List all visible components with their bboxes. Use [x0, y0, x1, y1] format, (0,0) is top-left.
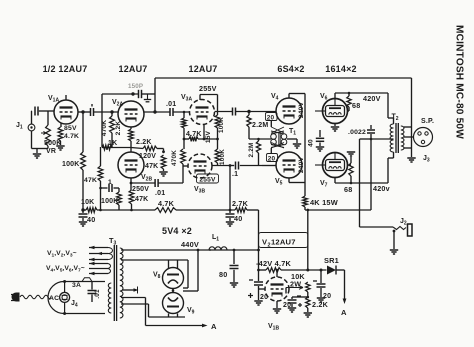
choke L1 — [209, 247, 227, 250]
transformer T2 core — [396, 123, 398, 153]
label L1 — [212, 234, 219, 243]
svg-text:255V: 255V — [199, 84, 217, 93]
capacitor .01 (V2A-V3A) — [170, 108, 173, 116]
svg-text:40: 40 — [234, 214, 242, 223]
svg-text:68: 68 — [352, 101, 360, 110]
svg-text:85V: 85V — [64, 125, 77, 132]
label 47K divider — [84, 177, 97, 184]
node row mid2 — [130, 209, 133, 212]
label 420V top — [363, 94, 381, 103]
ground (40 left) — [79, 222, 87, 226]
ground (20 mid) — [288, 308, 296, 312]
node L1 in — [197, 249, 260, 252]
node 10K bottom — [307, 296, 310, 299]
svg-text:420V: 420V — [363, 94, 381, 103]
svg-text:6S4×2: 6S4×2 — [277, 64, 304, 74]
resistor 2.7K — [235, 208, 247, 213]
resistor 47K to ground (V2B) — [161, 155, 166, 171]
capacitor input coupling — [32, 107, 39, 116]
svg-text:S.P.: S.P. — [421, 118, 434, 125]
wire T1 right to ground — [287, 139, 297, 143]
svg-text:.01: .01 — [94, 289, 101, 299]
ground (20 right) — [317, 298, 325, 302]
AC plug — [11, 293, 20, 302]
label 2.2M lower — [248, 142, 255, 157]
resistor 4.7K (V3A cathode) — [189, 137, 198, 142]
svg-text:240V: 240V — [298, 157, 305, 174]
label V2B — [141, 174, 152, 183]
label 1K — [108, 140, 117, 147]
cathode resistor 2.2K of V2A — [129, 127, 134, 148]
label .0022 — [348, 129, 366, 136]
svg-text:2.2K: 2.2K — [115, 121, 122, 136]
label 2.2M top — [252, 122, 268, 129]
wire grid node down to volume pot — [47, 111, 49, 125]
capacitor 20 boxed (V4 grid) — [266, 113, 278, 122]
resistor 100K upper (V3A plate) — [200, 95, 220, 140]
tube V2A — [118, 101, 144, 127]
label 47K V2B — [145, 163, 158, 170]
label V1A — [48, 95, 59, 104]
label S.P. — [421, 118, 434, 125]
wire SR1 output to A — [343, 270, 347, 304]
label J4 — [71, 300, 78, 309]
svg-text:4K 15W: 4K 15W — [310, 198, 338, 207]
label 20 right — [323, 293, 331, 300]
label: tube 1614 x2 — [325, 64, 356, 74]
capacitor .0022 — [367, 125, 375, 210]
svg-text:2.7K: 2.7K — [232, 199, 249, 208]
wiper arrow 10K — [286, 286, 303, 294]
node A2 junction — [110, 110, 113, 113]
label .1 — [232, 171, 238, 178]
wire V3A grid column — [183, 111, 186, 118]
ground (40 mid) — [226, 222, 234, 226]
tube V1A — [54, 95, 78, 124]
wire T1 left — [249, 138, 271, 141]
ground (output) — [407, 158, 415, 162]
label VR — [46, 148, 56, 155]
label A (bottom left) — [211, 322, 217, 331]
node cathode row left — [183, 138, 186, 141]
svg-text:100K: 100K — [218, 117, 225, 133]
svg-text:SR1: SR1 — [324, 256, 339, 265]
label 20 mid — [283, 302, 291, 309]
wire V8 right bracket — [183, 260, 188, 288]
capacitor 40 (mid) — [226, 210, 235, 221]
speaker jack S.P. — [414, 128, 433, 147]
svg-text:4.7K: 4.7K — [64, 133, 79, 140]
tube V3A — [190, 100, 215, 125]
wire bias column right — [306, 209, 309, 270]
label 15V vertical — [205, 130, 212, 143]
ground (T1) — [293, 144, 301, 148]
svg-text:2W: 2W — [290, 280, 301, 289]
resistor (V3A grid leak) — [182, 118, 187, 139]
svg-text:1: 1 — [108, 179, 112, 186]
tube V6 — [315, 99, 348, 124]
wire J1 to input cap — [31, 111, 33, 124]
svg-text:A: A — [211, 322, 217, 331]
rectifier heater tap arrow — [122, 287, 139, 294]
wire output ground column — [411, 78, 413, 157]
capacitor coupling V1A-V2A — [91, 104, 94, 116]
wire feedback top line — [155, 77, 412, 79]
wire branch down to grid node — [101, 94, 103, 147]
wire V3A out to V4 grid — [215, 111, 277, 113]
capacitor 20 (bias right) — [317, 270, 326, 297]
fuse 3A — [82, 278, 92, 282]
resistor 10K — [86, 208, 97, 213]
wire V7 plate bottom — [335, 178, 388, 185]
svg-text:A: A — [341, 308, 347, 317]
ground (V6 cathode) — [331, 124, 339, 132]
wire J2 column — [360, 138, 373, 227]
svg-text:20: 20 — [267, 114, 275, 121]
capacitor 1 (divider) — [101, 184, 120, 192]
label V7 — [320, 180, 328, 189]
svg-text:20: 20 — [323, 293, 331, 300]
resistor 47K (V2B lower) — [129, 183, 134, 210]
node row left — [81, 208, 84, 211]
capacitor .01 (V2B out) — [155, 179, 158, 187]
node plate row — [229, 164, 232, 167]
AC receptacle J4 — [60, 280, 70, 315]
svg-text:100K: 100K — [62, 161, 80, 168]
svg-text:80: 80 — [219, 270, 227, 279]
wire V1B plate stub — [276, 270, 278, 277]
svg-text:440V: 440V — [181, 240, 199, 249]
wire V1B cathode — [276, 301, 278, 308]
capacitor 40 (left) — [79, 210, 88, 221]
svg-text:68: 68 — [344, 185, 352, 194]
trimmer ground mark — [144, 94, 151, 102]
resistor 4.7K bias — [266, 268, 281, 273]
label V2 12AU7 — [262, 238, 296, 249]
resistor 68 (V6 screen) — [347, 92, 351, 111]
label -42V 4.7K — [256, 259, 292, 268]
resistor 100K lower — [215, 139, 220, 166]
label 4.7K row — [158, 199, 175, 208]
transformer T2 secondary — [401, 126, 404, 150]
label: rectifier 5V4 x2 — [162, 226, 192, 236]
label SR1 — [324, 256, 339, 265]
node V8-V9 junction — [172, 289, 175, 293]
tube V5 — [276, 152, 302, 178]
label .01 rotated — [94, 289, 101, 299]
label J2 — [400, 218, 407, 227]
wire T2 primary bottom — [388, 152, 394, 183]
svg-text:420v: 420v — [373, 184, 390, 193]
label 40 left — [87, 215, 95, 224]
svg-text:15V: 15V — [205, 130, 212, 143]
label 1 — [108, 179, 112, 186]
label 150P faint — [128, 83, 143, 90]
node row mid1 — [99, 209, 102, 212]
label 68 top — [352, 101, 360, 110]
node bias row j1 — [257, 269, 260, 272]
wire cathode row — [184, 138, 218, 140]
resistor 470K (V2A grid) — [110, 112, 115, 147]
label V6 — [320, 93, 328, 102]
capacitor 20 (mid) — [288, 300, 297, 307]
label 255V — [199, 84, 217, 93]
label T1 — [289, 128, 296, 137]
node feedback branch — [131, 92, 134, 95]
wire J1 sleeve down — [32, 131, 38, 149]
label: side title MCINTOSH MC-80 50W — [454, 25, 465, 139]
label 47K lower — [135, 196, 148, 203]
wire T2 center tap — [371, 138, 394, 140]
node bias row j2 — [306, 269, 309, 272]
capacitor feedback trimmer — [139, 90, 142, 98]
resistor 100K (divider lower) — [117, 188, 122, 210]
svg-text:-42V 4.7K: -42V 4.7K — [256, 259, 292, 268]
transformer T1 — [271, 131, 287, 148]
transformer T3 HV secondary — [120, 248, 123, 318]
wire 420V feed row — [305, 209, 371, 211]
label T3 — [109, 236, 117, 247]
wire pot bottom to ground — [37, 146, 48, 153]
node row mid3 — [229, 209, 232, 212]
svg-text:4.7K: 4.7K — [158, 199, 175, 208]
polarity minus right — [313, 280, 317, 282]
cathode resistor 4.7K of V1A — [58, 123, 63, 145]
label 4.7K (V1A cathode) — [64, 133, 79, 140]
wire HV top to 440V — [121, 249, 259, 251]
svg-text:20: 20 — [268, 155, 276, 162]
label T2 — [392, 114, 399, 123]
wire V4 plate rail — [289, 94, 305, 197]
svg-text:12AU7: 12AU7 — [118, 64, 147, 74]
tube V7 — [315, 153, 348, 178]
AC pill outline — [48, 282, 105, 314]
svg-text:.01: .01 — [155, 190, 165, 197]
ground (input) — [33, 154, 41, 158]
label 40 mid — [234, 214, 242, 223]
svg-text:5V4 ×2: 5V4 ×2 — [162, 226, 192, 236]
svg-text:255V: 255V — [199, 177, 216, 184]
label 85V — [64, 125, 77, 132]
resistor 4.7K row — [155, 208, 176, 213]
wire J2 row — [360, 226, 394, 228]
node 80 cap — [233, 249, 236, 252]
label 100K lower — [101, 198, 119, 205]
label V2A — [112, 99, 123, 108]
ground (bias left cap) — [254, 301, 262, 305]
capacitor .1 — [236, 162, 239, 170]
label 255V boxed — [197, 174, 219, 184]
label 80 — [219, 270, 227, 279]
ground (V1B) — [273, 309, 281, 313]
node V2B out — [130, 182, 133, 185]
svg-text:.01: .01 — [166, 101, 176, 108]
wire V2A plate to V3A grid — [144, 111, 190, 113]
svg-text:3A: 3A — [72, 282, 81, 289]
transformer T3 primary — [108, 283, 111, 313]
svg-text:250V: 250V — [132, 186, 149, 193]
capacitor 20 (bias left) — [254, 270, 263, 300]
resistor 68 (V7 screen) — [348, 163, 354, 183]
capacitor 20 boxed (V5 grid) — [267, 154, 278, 163]
wire cap to grid node — [39, 110, 54, 112]
transformer T2 primary — [390, 124, 393, 152]
svg-text:4.7K: 4.7K — [186, 131, 202, 138]
capacitor .01 line filter — [88, 282, 97, 303]
svg-text:10K: 10K — [81, 199, 94, 206]
capacitor 80 — [230, 250, 239, 282]
label 2W — [290, 280, 301, 289]
ground (80 cap) — [230, 283, 238, 287]
node bias row j4 — [276, 269, 279, 272]
label 420V bottom right — [373, 184, 390, 193]
svg-text:.0022: .0022 — [348, 129, 366, 136]
wire to 20 cap mid — [292, 297, 308, 299]
svg-text:470K: 470K — [171, 150, 178, 166]
label 3A — [72, 282, 81, 289]
label V3B — [194, 186, 205, 195]
wire bias column left — [258, 210, 260, 270]
node V4 grid branch — [247, 110, 250, 113]
svg-text:240V: 240V — [298, 102, 305, 119]
svg-text:12AU7: 12AU7 — [271, 238, 296, 247]
wire mid column — [229, 166, 231, 211]
resistor 4K 15W — [303, 196, 308, 210]
label 10K — [291, 272, 305, 281]
svg-text:1/2 12AU7: 1/2 12AU7 — [43, 64, 88, 74]
AC cord — [20, 295, 51, 299]
svg-text:100K: 100K — [101, 198, 119, 205]
label: tube 1/2 12AU7 — [43, 64, 88, 74]
svg-text:1K: 1K — [108, 140, 117, 147]
label 500K — [44, 140, 62, 147]
label V5 — [275, 178, 283, 187]
wire V1B grid stub — [259, 288, 266, 290]
ground (J2) — [390, 250, 398, 254]
label 240V lower — [298, 157, 305, 174]
label 100K upper vertical — [218, 117, 225, 133]
label J3 — [423, 155, 430, 164]
label 4K 15W — [310, 198, 338, 207]
label A (SR1) — [341, 308, 347, 317]
svg-text:1614×2: 1614×2 — [325, 64, 356, 74]
tube V4 — [276, 98, 302, 124]
ground (V2B plate resistor) — [159, 172, 167, 176]
svg-text:47K: 47K — [84, 177, 97, 184]
wire feedback trim branch — [102, 93, 155, 95]
label 10K — [81, 199, 94, 206]
resistor 2.2M vertical top — [247, 112, 251, 140]
svg-text:12AU7: 12AU7 — [188, 64, 217, 74]
capacitor coupling to V4 — [233, 108, 236, 116]
potentiometer 500K VR — [41, 125, 50, 146]
resistor 2.2K (coupling row) — [143, 146, 157, 151]
label V4,V5,V6,V7 heaters — [46, 265, 85, 274]
wire V8 plate feed — [121, 259, 188, 261]
ground (V1A cathode) — [56, 146, 64, 150]
wire V3B plate row — [212, 165, 262, 167]
svg-text:100K: 100K — [219, 149, 226, 165]
wire V3A cathode stub — [203, 125, 205, 140]
feedback divider 100K — [81, 112, 86, 210]
label 440V — [181, 240, 199, 249]
node A1 junction — [81, 110, 84, 113]
label 4.7K V3A — [186, 131, 202, 138]
ground (screen cap) — [316, 147, 324, 151]
label 470K vertical — [101, 120, 108, 137]
svg-text:MCINTOSH MC-80 50W: MCINTOSH MC-80 50W — [454, 25, 465, 139]
label .01 (V2B) — [155, 190, 165, 197]
label V1B — [268, 323, 279, 332]
svg-text:2.2M: 2.2M — [252, 122, 268, 129]
wire T2 primary top — [388, 93, 394, 124]
label box V2 12AU7 — [259, 233, 309, 248]
label: tube 12AU7 (third) — [188, 64, 217, 74]
wire bias tap to A — [121, 298, 208, 328]
resistor 2.2M vertical (lower) — [256, 139, 260, 166]
tube V1B — [265, 277, 289, 301]
label 120V — [139, 153, 156, 160]
node divider junction — [99, 187, 102, 190]
label 2.2K row — [136, 139, 152, 146]
svg-text:40: 40 — [87, 215, 95, 224]
resistor 1K — [102, 145, 112, 150]
label 250V — [132, 186, 149, 193]
node bias row j3 — [320, 269, 323, 272]
wire to V5 grid — [262, 165, 276, 167]
label 100K (feedback) — [62, 161, 80, 168]
label 100K lower vertical — [219, 149, 226, 165]
diode SR1 — [327, 266, 336, 275]
wire V5 grid box to T1 — [271, 143, 284, 154]
heater winding group 1 — [89, 246, 113, 262]
label V9 — [187, 307, 195, 316]
wire secondary lower tap — [404, 147, 412, 149]
label 2.2K vertical — [115, 121, 122, 136]
tube V9 — [163, 293, 184, 318]
label AC — [49, 295, 59, 302]
tube V2B — [118, 152, 144, 178]
wire V9 plate feed — [121, 304, 185, 317]
label 240V upper — [298, 102, 305, 119]
wire V2B output row — [131, 182, 183, 184]
wire secondary top tap — [404, 126, 412, 128]
jack J1 input — [16, 122, 35, 131]
resistor 2.2K bias — [306, 297, 310, 312]
wire V1A plate to V2A grid — [78, 111, 118, 113]
node cathode row mid — [203, 138, 206, 141]
label V1,V2,V3 heaters — [47, 250, 77, 259]
svg-text:2.2K: 2.2K — [136, 139, 152, 146]
wire feedback drop to V2A plate — [154, 78, 156, 112]
node V2B plate — [162, 150, 165, 153]
label 470K (V3B grid) — [171, 150, 178, 166]
label: tube 6S4 x2 — [277, 64, 304, 74]
svg-text:.1: .1 — [232, 171, 238, 178]
label 2.7K — [232, 199, 249, 208]
svg-text:2.2M: 2.2M — [248, 142, 255, 157]
wire V2B cathode down — [130, 178, 132, 183]
wire B+ pickup — [183, 250, 198, 291]
ground (2.2K) — [304, 313, 312, 317]
potentiometer 10K 2W — [306, 282, 310, 297]
wire V6 plate top — [335, 93, 388, 99]
label 2.2K bias — [312, 300, 329, 309]
wire V5 plate to rail — [289, 178, 305, 183]
wire secondary mid tap to speaker — [404, 136, 414, 138]
svg-text:47K: 47K — [135, 196, 148, 203]
label V8 — [153, 272, 161, 281]
